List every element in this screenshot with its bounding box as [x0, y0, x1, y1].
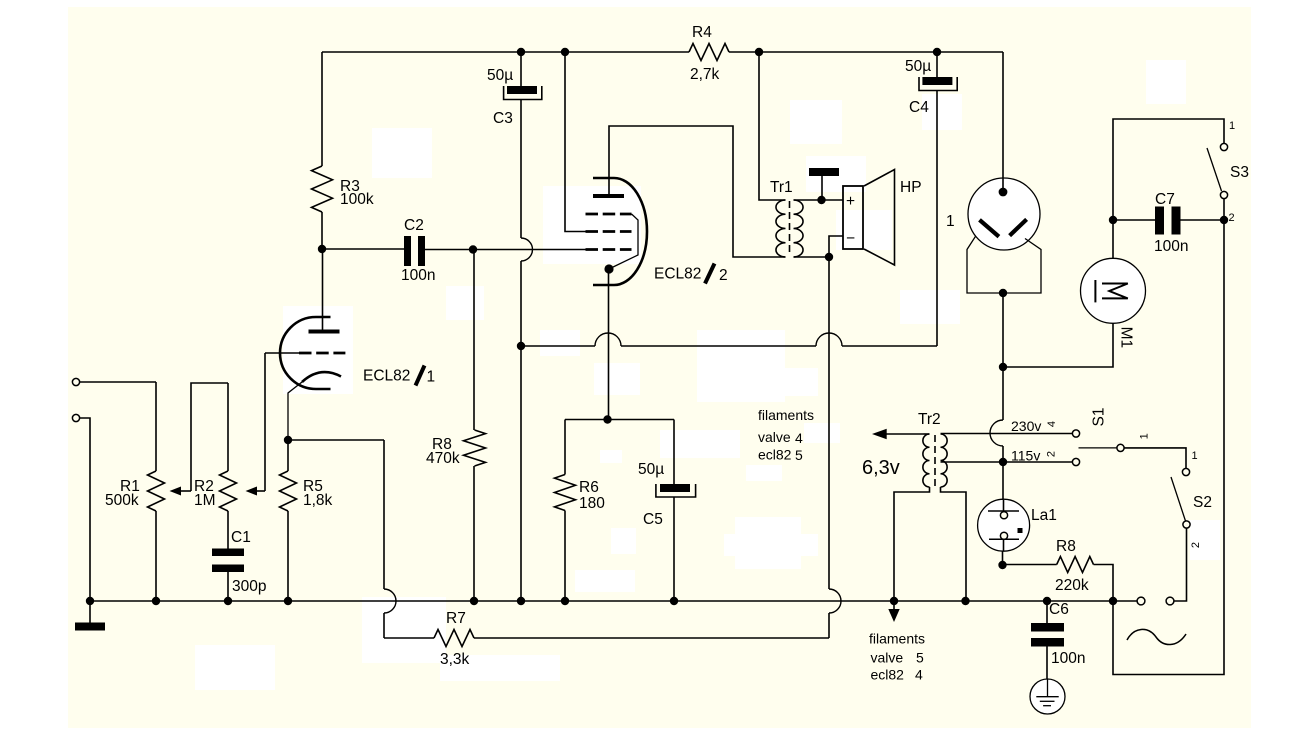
- wire C3 down: [520, 100, 522, 239]
- svg-text:3,3k: 3,3k: [440, 651, 470, 668]
- svg-text:filaments: filaments: [869, 631, 925, 647]
- svg-text:1,8k: 1,8k: [303, 492, 333, 509]
- svg-text:HP: HP: [900, 179, 922, 196]
- node ECL82-1 cathode / R5 / R7: [284, 436, 292, 444]
- svg-text:300p: 300p: [232, 578, 266, 595]
- wire hop over feedback line: [816, 333, 842, 346]
- svg-text:1M: 1M: [194, 492, 216, 509]
- svg-text:ecl82: ecl82: [871, 667, 905, 683]
- wire Tr1 primary top feed: [759, 52, 786, 200]
- wire R1 top: [155, 382, 157, 471]
- svg-text:S1: S1: [1091, 408, 1108, 427]
- 6.3v arrow: [872, 429, 924, 439]
- svg-text:5: 5: [916, 650, 924, 666]
- svg-text:230v: 230v: [1011, 418, 1041, 434]
- resistor R8 220k: [1055, 538, 1094, 594]
- ECL82-2 control grid: [586, 248, 632, 251]
- wire input1 to R1: [80, 381, 156, 383]
- node rail C6: [1043, 597, 1051, 605]
- node C2 / R8 junction: [469, 245, 477, 253]
- svg-text:100n: 100n: [401, 267, 435, 284]
- svg-text:100n: 100n: [1154, 238, 1188, 255]
- svg-text:ecl82: ecl82: [758, 447, 792, 463]
- wire C6 bottom: [1046, 647, 1048, 680]
- node rail C1: [224, 597, 232, 605]
- ECL82-2 cathode node: [604, 264, 613, 273]
- rectifier filament leads: [967, 236, 1041, 293]
- wire C4 bottom to ground return: [936, 91, 938, 347]
- wire R1 wiper to R2 top: [191, 383, 228, 491]
- motor M1: [1081, 258, 1146, 323]
- node rail Tr2 heater: [890, 597, 898, 605]
- label ECL82/1: [363, 366, 435, 386]
- wire ECL82-1 grid lead: [265, 352, 299, 354]
- terminal plug left: [1137, 597, 1145, 605]
- svg-text:2: 2: [1190, 542, 1202, 548]
- tube 1 rectifier envelope: [968, 178, 1040, 250]
- transformer Tr1 primary winding: [776, 200, 786, 257]
- wire R1 bottom: [155, 511, 157, 601]
- svg-text:filaments: filaments: [758, 407, 814, 423]
- resistor R5: [280, 471, 333, 511]
- transformer Tr2 core: [934, 435, 936, 486]
- wire bottom ground rail: [90, 600, 1137, 602]
- wire La1 node to R8: [1003, 564, 1057, 566]
- ECL82-2 anode bar: [593, 194, 624, 198]
- wire C3 line to bottom rail: [520, 346, 522, 601]
- wire 115v tap: [941, 461, 1073, 463]
- wire feedback from Tr1 secondary down: [828, 257, 830, 589]
- node B+ / C3 junction: [517, 48, 525, 56]
- resistor R8 470k: [426, 430, 486, 467]
- wire ECL82-1 anode lead: [322, 249, 324, 330]
- terminal plug right: [1166, 597, 1174, 605]
- node rail Tr2 primary: [961, 597, 969, 605]
- svg-text:R7: R7: [446, 610, 466, 627]
- svg-text:6,3v: 6,3v: [862, 457, 900, 479]
- svg-text:2: 2: [1229, 212, 1235, 224]
- rectifier plates: [980, 219, 1027, 236]
- svg-text:+: +: [846, 193, 855, 210]
- svg-text:1: 1: [1229, 120, 1235, 132]
- svg-text:C1: C1: [231, 529, 251, 546]
- terminal input 1: [72, 378, 79, 385]
- wire R6-C5 top: [565, 419, 674, 421]
- svg-text:2: 2: [1046, 451, 1058, 457]
- wire hop over bottom rail (left): [384, 589, 396, 613]
- chassis bar above HP: [809, 168, 839, 200]
- svg-text:La1: La1: [1031, 507, 1057, 524]
- capacitor C4: [905, 58, 957, 116]
- wire Tr1 secondary bottom: [794, 256, 830, 258]
- wire ground return C3-C4: [521, 345, 595, 347]
- wire Tr2 primary bottom: [941, 487, 967, 601]
- wire hop over 230v wire: [990, 420, 1003, 446]
- svg-text:C5: C5: [643, 511, 663, 528]
- svg-text:R8: R8: [1056, 538, 1076, 555]
- switch S1 blade: [1079, 444, 1125, 451]
- capacitor C2: [401, 217, 435, 284]
- tube ECL82/2 pentode envelope: [593, 178, 647, 285]
- wire screen grid feed: [565, 52, 586, 232]
- svg-text:Tr1: Tr1: [770, 179, 793, 196]
- wire C2 to ECL82-2 grid: [425, 249, 586, 251]
- svg-text:C2: C2: [404, 217, 424, 234]
- svg-text:ECL82: ECL82: [654, 266, 701, 283]
- wire R2 wiper to ECL82-1 grid: [264, 353, 266, 491]
- wire Tr1 secondary top to HP: [794, 199, 844, 201]
- wire right loop down: [1113, 220, 1224, 675]
- wire C4 top: [936, 52, 938, 77]
- svg-text:1: 1: [946, 213, 955, 230]
- node La1 / R8-220k: [998, 561, 1006, 569]
- wire La1 bottom: [1002, 551, 1004, 565]
- wire B+ down to rectifier: [1002, 52, 1004, 192]
- label filaments (bottom): [869, 631, 925, 683]
- ECL82-2 screen grid: [586, 230, 632, 233]
- wire R7 line left segment: [384, 637, 434, 639]
- svg-text:−: −: [846, 230, 855, 247]
- label filaments (top): [758, 407, 814, 463]
- svg-text:220k: 220k: [1055, 577, 1089, 594]
- wire top B+ rail left segment: [322, 51, 689, 53]
- node Tr1 secondary top / HP+: [817, 196, 825, 204]
- wire R6 top: [564, 420, 566, 475]
- node rail S-loop: [1109, 597, 1117, 605]
- wire S1 to S2: [1124, 448, 1186, 469]
- switch S2: [1171, 468, 1190, 528]
- svg-text:M1: M1: [1117, 327, 1134, 349]
- svg-text:S3: S3: [1230, 164, 1249, 181]
- svg-text:C4: C4: [909, 99, 929, 116]
- potentiometer R2: [194, 471, 237, 511]
- transformer Tr2 heater winding: [923, 434, 930, 487]
- svg-text:S2: S2: [1193, 494, 1212, 511]
- capacitor C1: [212, 529, 266, 595]
- R1 wiper arrow: [170, 487, 192, 496]
- svg-text:4: 4: [795, 430, 803, 446]
- wire R5 top: [287, 440, 289, 471]
- node R4 / Tr1 primary junction: [755, 48, 763, 56]
- svg-text:valve: valve: [758, 429, 791, 445]
- capacitor C6: [1031, 601, 1085, 667]
- wire S2 down to plug: [1174, 528, 1187, 601]
- svg-text:1: 1: [1139, 433, 1151, 439]
- node rectifier / M1: [999, 363, 1007, 371]
- wire R6 bottom: [564, 511, 566, 602]
- node C4 junction: [933, 48, 941, 56]
- ECL82-2 suppressor grid: [586, 213, 632, 216]
- node rail input: [86, 597, 94, 605]
- node screen-grid junction: [561, 48, 569, 56]
- node S3-2 / C7: [1220, 216, 1228, 224]
- wire M1 bottom to rectifier node: [1003, 323, 1113, 367]
- wire ECL82-2 anode lead: [609, 126, 786, 257]
- wire C3 line down to ground wire: [520, 261, 522, 346]
- node rail R1: [152, 597, 160, 605]
- wire HP minus lead: [829, 236, 843, 257]
- wire C7 left: [1113, 219, 1155, 221]
- lamp La1: [978, 499, 1030, 551]
- wire M1 top: [1112, 220, 1114, 258]
- wire ECL82-1 cathode lead: [288, 382, 302, 440]
- svg-text:180: 180: [579, 495, 605, 512]
- ECL82-1 anode bar: [309, 330, 340, 334]
- svg-text:500k: 500k: [105, 492, 139, 509]
- resistor R6: [555, 475, 606, 513]
- wire R2 bottom to C1: [227, 511, 229, 549]
- potentiometer R1: [105, 471, 165, 511]
- svg-text:valve: valve: [871, 650, 904, 666]
- wire B+ to C3: [520, 52, 522, 86]
- transformer Tr1 secondary winding: [794, 200, 804, 257]
- node rail R5: [284, 597, 292, 605]
- switch S3: [1207, 143, 1228, 220]
- wire R3 bottom to node: [321, 212, 323, 249]
- wire R3 top: [321, 52, 323, 166]
- wire C5 top: [673, 420, 675, 485]
- svg-text:470k: 470k: [426, 450, 460, 467]
- svg-text:50µ: 50µ: [487, 67, 513, 84]
- filament arrow down: [888, 601, 899, 622]
- wire hop over bottom rail (right): [829, 589, 841, 613]
- node rail R8-470k: [470, 597, 478, 605]
- svg-text:1: 1: [1192, 450, 1198, 462]
- terminal input 2: [72, 414, 79, 421]
- node R3 / C2 / anode ECL82-1: [318, 245, 326, 253]
- wire cathode node to R7: [288, 439, 384, 441]
- svg-text:2: 2: [719, 267, 728, 284]
- wire hop over cathode line: [595, 333, 621, 346]
- svg-text:C7: C7: [1155, 191, 1175, 208]
- resistor R4: [689, 24, 729, 83]
- R2 wiper arrow: [246, 487, 266, 496]
- svg-text:50µ: 50µ: [638, 461, 664, 478]
- ECL82-2 suppressor-cathode link: [610, 214, 638, 269]
- svg-text:5: 5: [795, 447, 803, 463]
- node M1 / C7: [1109, 216, 1117, 224]
- wire input2 down to rail: [80, 418, 90, 601]
- resistor R3: [312, 166, 374, 212]
- capacitor C7: [1154, 191, 1188, 255]
- svg-text:ECL82: ECL82: [363, 368, 410, 385]
- svg-text:4: 4: [1046, 421, 1058, 427]
- ECL82-1 grid: [299, 352, 345, 355]
- wire top B+ rail right segment: [729, 51, 1003, 53]
- wire R5 bottom: [287, 511, 289, 601]
- node C3 line / ground return wire: [517, 342, 525, 350]
- resistor R7: [434, 610, 474, 668]
- node 115v junction: [999, 458, 1007, 466]
- wire 230v tap: [941, 433, 1073, 435]
- sine symbol: [1127, 629, 1186, 644]
- node rail C3 line: [517, 597, 525, 605]
- speaker HP: [843, 170, 922, 266]
- label ECL82/2: [654, 264, 728, 285]
- wire C1 bottom: [227, 572, 229, 601]
- earth ground: [1030, 679, 1065, 714]
- wire C7 right: [1181, 219, 1225, 221]
- wire S3 loop top: [1113, 119, 1224, 220]
- terminal 115v: [1072, 458, 1079, 465]
- svg-text:100n: 100n: [1051, 650, 1085, 667]
- svg-text:100k: 100k: [340, 191, 374, 208]
- wire rectifier cathode down: [1002, 293, 1004, 420]
- wire R8 to rail node: [1094, 565, 1114, 602]
- wire ECL82-2 cathode down: [608, 273, 610, 420]
- wire node to C2: [322, 248, 404, 250]
- wire Tr2 heater bottom: [894, 487, 930, 601]
- svg-text:C6: C6: [1049, 601, 1069, 618]
- svg-text:2,7k: 2,7k: [690, 66, 720, 83]
- wire R8-470k bottom: [473, 466, 475, 601]
- transformer Tr1 core: [789, 201, 791, 256]
- terminal 230v: [1072, 430, 1079, 437]
- wire R2 top: [227, 383, 229, 471]
- svg-text:115v: 115v: [1011, 448, 1040, 464]
- node Tr1 secondary bottom / HP- / feedback: [825, 253, 833, 261]
- wire C6 top: [1046, 601, 1048, 623]
- node rail C5: [670, 597, 678, 605]
- transformer Tr2 primary winding: [941, 434, 948, 487]
- svg-text:R6: R6: [579, 479, 599, 496]
- capacitor C5: [638, 461, 696, 528]
- wire R7 line right segment: [474, 637, 829, 639]
- svg-text:R4: R4: [692, 24, 712, 41]
- tube ECL82/1 triode envelope: [280, 317, 331, 389]
- svg-text:C3: C3: [493, 110, 513, 127]
- capacitor C3: [487, 67, 542, 127]
- node rail R6: [561, 597, 569, 605]
- wire R8-470k top: [473, 250, 475, 431]
- svg-text:4: 4: [915, 667, 923, 683]
- ECL82-1 cathode: [302, 372, 341, 382]
- node ECL82-2 cathode / R6 / C5: [603, 415, 611, 423]
- wire C5 bottom: [673, 497, 675, 601]
- svg-text:Tr2: Tr2: [918, 411, 941, 428]
- rectifier anode node: [999, 188, 1008, 197]
- wire down to La1: [1002, 462, 1004, 500]
- wire hop over grid wire: [521, 238, 533, 261]
- svg-text:1: 1: [427, 369, 436, 386]
- ground: [75, 601, 105, 631]
- svg-text:50µ: 50µ: [905, 58, 931, 75]
- node rectifier cathode: [999, 289, 1007, 297]
